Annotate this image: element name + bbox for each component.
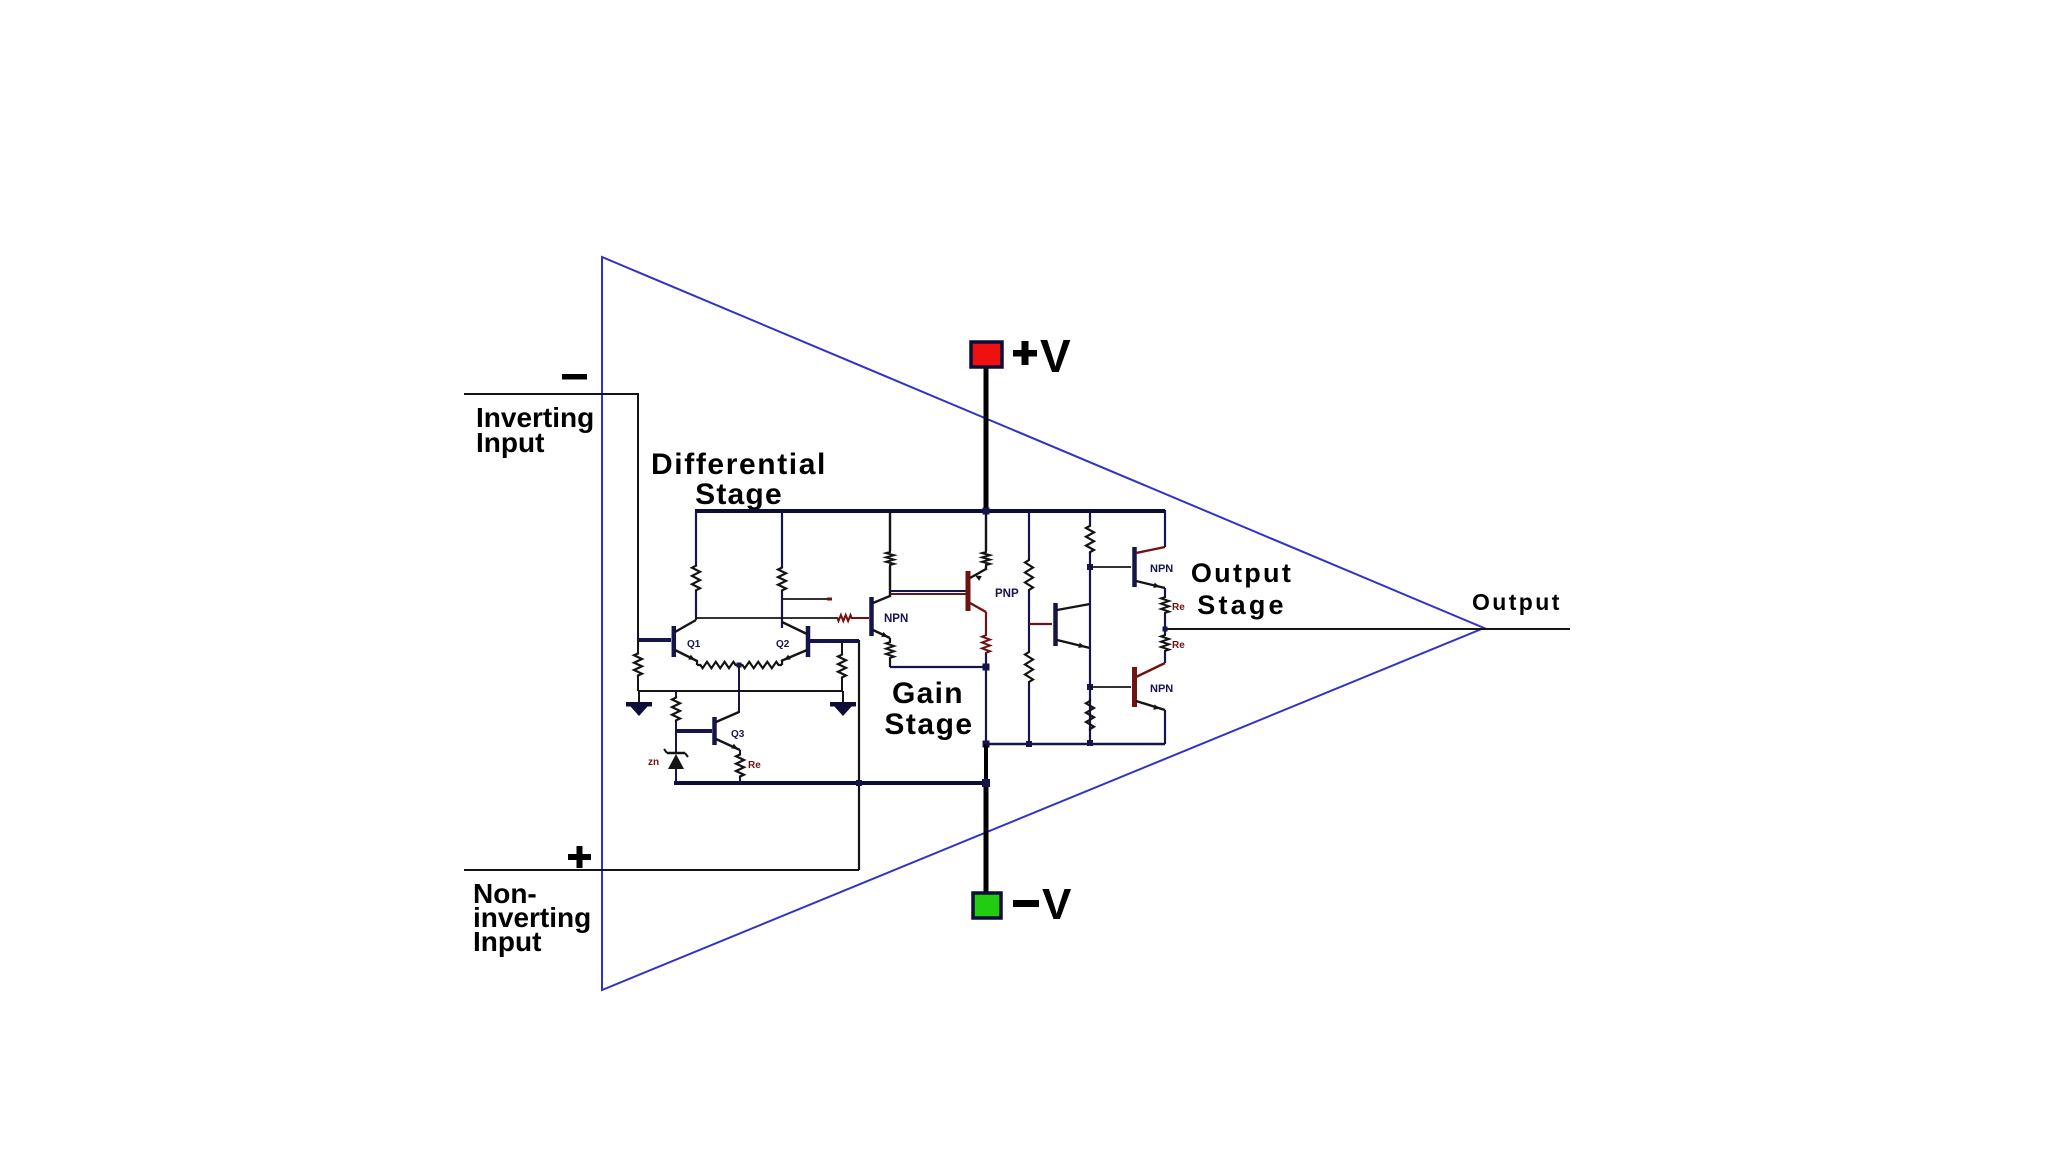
resistor R8 (gain collector) [886, 551, 894, 566]
resistor R5 (Q3 base feed) [672, 696, 680, 722]
resistor R1 (Q1 collector load) [692, 564, 700, 592]
wire Q2 base bias drop [841, 641, 843, 653]
transistor U1 NPN bar [869, 597, 874, 636]
resistor R14 (driver collector) [1086, 524, 1094, 554]
plus sign for non-inverting input [568, 854, 591, 860]
resistor R13 (lower bias chain) [1025, 650, 1033, 684]
wire inverting input vertical drop [637, 393, 639, 640]
wire tail to Q3 collector [738, 665, 740, 713]
svg-text:Output: Output [1191, 558, 1293, 588]
wire PNP collector drop [985, 612, 987, 634]
transistor Q3 bar [712, 717, 717, 745]
svg-text:NPN: NPN [1150, 683, 1173, 695]
node tail junction [737, 663, 742, 668]
transistor U2 collector lead [970, 603, 986, 612]
resistor RE1 (Q1 emitter degeneration) [697, 662, 739, 668]
wire Q1 emitter stub [696, 660, 698, 665]
node driver chain bottom [1087, 740, 1093, 746]
transistor Q6 emitter lead [1136, 701, 1165, 710]
wire -V bottom supply rail [674, 781, 988, 785]
wire PNP emitter riser [985, 511, 987, 551]
transistor Q5 emitter lead [1136, 581, 1165, 588]
wire top output base [1090, 566, 1131, 568]
wire Q5 emitter to Re [1164, 588, 1166, 596]
wire bias chain riser 1 [1028, 511, 1030, 558]
wire Q3 emitter drop [739, 750, 741, 753]
wire stub node A [782, 598, 831, 600]
wire thick drop to rail [984, 744, 988, 783]
wire non-inverting input horizontal [464, 869, 859, 871]
node top rail junction [983, 508, 990, 515]
transistor Q5 top output bar [1132, 547, 1137, 587]
ground G1 [638, 691, 640, 703]
node bias chain bottom [1026, 741, 1032, 747]
node output junction [1163, 627, 1168, 632]
wire PNP base link [890, 590, 966, 592]
transistor Q5 collector lead [1136, 547, 1165, 553]
transistor Q3 collector lead [716, 712, 739, 722]
op-amp triangle symbol [602, 257, 1484, 990]
node riser-rail crossing [856, 780, 862, 786]
transistor Q3 emitter lead [716, 739, 740, 750]
wire driver riser [1089, 511, 1091, 524]
resistor R9 (PNP emitter) [982, 551, 990, 566]
svg-text:Q3: Q3 [731, 729, 745, 740]
wire +V top supply rail [695, 509, 1165, 513]
resistor R4 (non-inverting bias) [838, 653, 846, 679]
svg-text:NPN: NPN [884, 613, 908, 625]
resistor R2 (Q2 collector load) [778, 566, 786, 592]
resistor R6 Re (Q3 emitter) [736, 753, 744, 778]
svg-text:Stage: Stage [1197, 590, 1287, 620]
transistor Q6 bottom output bar [1132, 667, 1137, 707]
wire Re to Q6 collector [1164, 652, 1166, 663]
resistor R15 (lower driver chain) [1086, 699, 1094, 731]
transistor Q6 collector lead [1136, 663, 1165, 677]
transistor Q4 emitter lead [1057, 640, 1090, 648]
wire inverting input horizontal [464, 393, 638, 395]
wire output bus bottom [986, 743, 1165, 745]
wire Q3 base [676, 729, 712, 733]
svg-text:NPN: NPN [1150, 563, 1173, 575]
transistor U1 emitter lead [873, 630, 890, 638]
resistor R16 Re (top output) [1161, 596, 1169, 614]
label +V [1013, 350, 1037, 357]
-V terminal green square [973, 893, 1001, 918]
node lower junction [983, 741, 990, 748]
wire gain base maroon segment [853, 617, 869, 619]
svg-text:Q1: Q1 [687, 639, 701, 650]
wire bottom output base [1090, 686, 1131, 688]
transistor Q1 collector lead [675, 620, 696, 632]
transistor U2 emitter lead [970, 569, 986, 578]
svg-text:Q2: Q2 [776, 639, 790, 650]
node gain-out junction [983, 664, 990, 671]
wire Q6 emitter drop [1164, 710, 1166, 744]
wire gain output drop [985, 667, 987, 744]
wire gain NPN collector riser [889, 511, 891, 551]
minus sign for inverting input [562, 374, 587, 380]
wire bias bus [638, 690, 843, 692]
ground G2 [842, 691, 844, 703]
wire output line [1165, 628, 1570, 630]
svg-text:Input: Input [473, 926, 541, 957]
node rail junction [982, 779, 990, 787]
wire Q2 collector riser [781, 511, 783, 566]
resistor RE2 (Q2 emitter degeneration) [739, 662, 782, 668]
wire Q1 base [638, 638, 671, 642]
wire Q1 collector to gain stage base [696, 617, 836, 619]
svg-text:Output: Output [1472, 589, 1562, 615]
resistor R17 Re (bottom output) [1161, 634, 1169, 652]
transistor Q2 bar [806, 626, 811, 657]
resistor R12 (upper bias chain) [1025, 558, 1033, 592]
wire gain stage bottom link [890, 666, 986, 668]
resistor R7 (gain base series) [836, 615, 853, 621]
svg-text:Stage: Stage [884, 708, 973, 741]
wire driver base [1029, 623, 1052, 625]
svg-text:V: V [1042, 880, 1072, 929]
svg-text:Input: Input [476, 427, 544, 458]
node driver top junction [1087, 564, 1093, 570]
node driver bottom junction [1087, 684, 1093, 690]
wire U1 emitter drop [889, 638, 891, 641]
label -V [1013, 900, 1039, 907]
wire zener to rail [675, 769, 677, 783]
wire Q2 base [809, 639, 859, 643]
resistor R3 (inverting bias) [634, 652, 642, 677]
+V supply stem wire [984, 365, 989, 511]
wire Q5 collector to rail [1164, 510, 1166, 547]
svg-text:PNP: PNP [995, 588, 1019, 600]
transistor U2 PNP bar [966, 571, 971, 611]
transistor Q2 collector lead [782, 622, 807, 634]
+V terminal red square [971, 342, 1002, 367]
svg-text:Re: Re [748, 760, 761, 771]
wire Re to output node [1164, 614, 1166, 634]
transistor U1 collector lead [873, 596, 890, 603]
svg-text:Gain: Gain [892, 677, 964, 710]
wire Q3 bias branch [675, 691, 677, 696]
zener diode ZN [667, 752, 685, 755]
svg-text:Stage: Stage [695, 478, 783, 511]
transistor Q4 collector lead [1057, 604, 1090, 610]
-V supply stem wire [984, 783, 989, 895]
svg-text:V: V [1040, 330, 1071, 382]
resistor R10 (U1 emitter) [886, 641, 894, 659]
wire left bias drop from Q1 base [637, 640, 639, 652]
wire Q2 emitter stub [781, 660, 783, 665]
resistor R11 (PNP collector) [982, 634, 990, 654]
svg-text:Re: Re [1172, 602, 1185, 613]
svg-text:Re: Re [1172, 640, 1185, 651]
wire non-inverting input vertical riser [858, 640, 860, 870]
transistor Q1 bar [672, 626, 677, 657]
transistor Q1 emitter lead [675, 650, 697, 661]
svg-text:zn: zn [648, 757, 659, 768]
wire Q1 collector riser [695, 511, 697, 564]
transistor Q2 emitter lead [781, 650, 807, 661]
svg-text:Differential: Differential [651, 448, 827, 481]
transistor Q4 driver bar [1053, 603, 1058, 646]
